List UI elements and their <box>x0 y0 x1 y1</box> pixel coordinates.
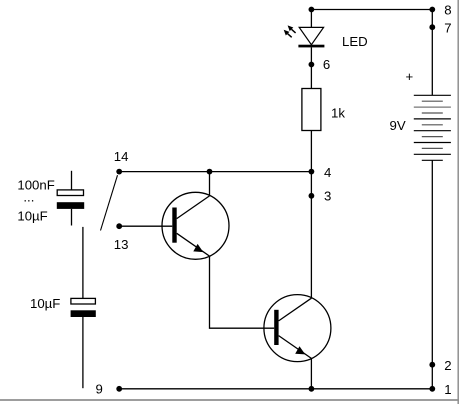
svg-text:+: + <box>406 69 414 84</box>
svg-text:3: 3 <box>324 188 331 203</box>
wire node 14 to node 4 <box>119 171 311 173</box>
transistor Q1 <box>162 192 229 259</box>
svg-text:9V: 9V <box>390 118 406 133</box>
svg-text:10µF: 10µF <box>17 209 47 224</box>
junction Q1 collector <box>207 169 213 175</box>
svg-text:14: 14 <box>114 149 129 164</box>
svg-text:2: 2 <box>444 358 451 373</box>
capacitor C2 <box>71 227 96 388</box>
node 1 <box>429 386 435 392</box>
node 4 <box>309 169 315 175</box>
svg-text:4: 4 <box>324 165 331 180</box>
svg-text:1: 1 <box>444 382 451 397</box>
svg-text:8: 8 <box>444 2 451 17</box>
node 7 <box>429 24 435 30</box>
frame border <box>457 0 459 404</box>
svg-text:10µF: 10µF <box>30 296 60 311</box>
svg-text:1k: 1k <box>331 106 345 121</box>
capacitor C1 <box>57 171 84 226</box>
wire main rail <box>310 131 312 299</box>
wire right rail lower <box>431 160 433 388</box>
wire top rail <box>311 9 432 11</box>
wire LED cathode <box>310 47 312 88</box>
junction bottom rail <box>309 386 315 392</box>
svg-text:6: 6 <box>323 57 330 72</box>
switch lever S1 <box>101 175 118 230</box>
svg-text:9: 9 <box>96 381 103 396</box>
svg-text:...: ... <box>23 189 34 204</box>
wire bottom rail <box>119 388 432 390</box>
node 9 <box>116 386 122 392</box>
LED D1 <box>284 10 325 48</box>
wire right rail upper <box>431 10 433 96</box>
resistor R1 <box>302 89 321 131</box>
wire Q1 base <box>119 225 172 227</box>
node 14 <box>116 169 122 175</box>
node 13 <box>116 223 122 229</box>
wire Q1 collector <box>209 172 211 196</box>
node 2 <box>429 362 435 368</box>
battery BT1 <box>414 95 451 160</box>
svg-text:13: 13 <box>114 237 129 252</box>
node 6 <box>309 62 315 68</box>
transistor Q2 <box>264 295 331 362</box>
wire Q1 emitter to Q2 base <box>210 256 275 328</box>
svg-text:LED: LED <box>342 34 368 49</box>
wire Q2 emitter <box>310 358 312 389</box>
node 3 <box>309 193 315 199</box>
node top junction <box>309 7 315 13</box>
node 8 <box>429 7 435 13</box>
svg-text:7: 7 <box>444 21 451 36</box>
